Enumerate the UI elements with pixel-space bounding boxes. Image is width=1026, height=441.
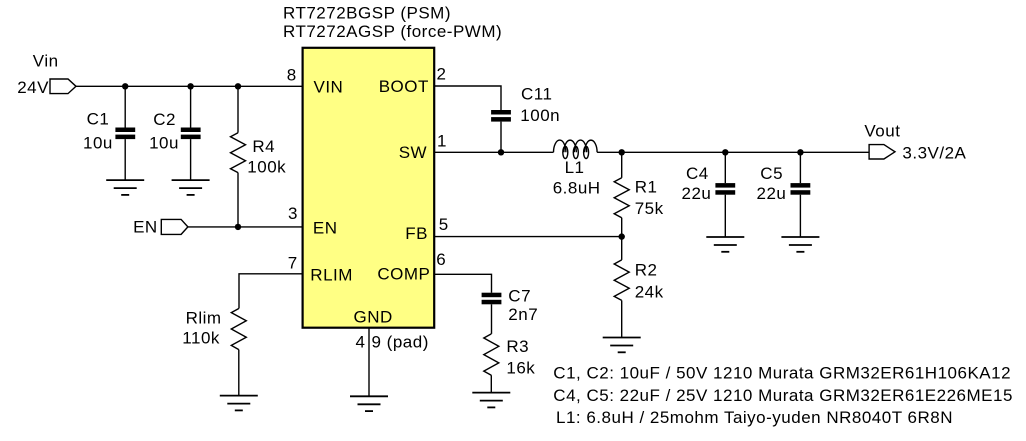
- capacitor C5: [791, 152, 811, 237]
- ground (C5): [781, 237, 819, 252]
- capacitor C11: [491, 110, 511, 152]
- svg-text:2n7: 2n7: [508, 305, 538, 324]
- svg-text:100k: 100k: [247, 158, 286, 177]
- svg-text:6: 6: [436, 250, 446, 269]
- junction SW/C11: [498, 149, 504, 155]
- svg-text:3.3V/2A: 3.3V/2A: [902, 144, 966, 163]
- ground (C4): [706, 237, 744, 252]
- svg-text:C1, C2: 10uF / 50V 1210 Murata: C1, C2: 10uF / 50V 1210 Murata GRM32ER61…: [553, 364, 1011, 383]
- wire L1 to Vout: [597, 151, 869, 153]
- svg-text:L1: 6.8uH / 25mohm Taiyo-yuden: L1: 6.8uH / 25mohm Taiyo-yuden NR8040T 6…: [556, 408, 953, 427]
- svg-text:22u: 22u: [757, 184, 787, 203]
- svg-text:8: 8: [287, 66, 297, 85]
- ground (Rlim): [220, 396, 258, 411]
- svg-text:R1: R1: [635, 178, 658, 197]
- svg-text:RT7272AGSP (force-PWM): RT7272AGSP (force-PWM): [283, 22, 502, 41]
- wire GND pin: [368, 328, 370, 397]
- svg-text:3: 3: [288, 204, 298, 223]
- svg-text:24V: 24V: [17, 78, 49, 97]
- svg-text:Rlim: Rlim: [186, 309, 222, 328]
- wire RLIM to Rlim resistor: [239, 274, 303, 309]
- svg-text:2: 2: [437, 65, 447, 84]
- junction SW/L1/R1: [619, 149, 625, 155]
- svg-text:EN: EN: [133, 217, 158, 236]
- resistor R3: [484, 334, 499, 393]
- svg-text:R4: R4: [252, 137, 275, 156]
- resistor R2: [614, 237, 629, 338]
- ground (C2): [172, 180, 210, 195]
- svg-text:9 (pad): 9 (pad): [372, 333, 429, 352]
- ground (C1): [106, 180, 144, 195]
- svg-text:RT7272BGSP (PSM): RT7272BGSP (PSM): [283, 4, 451, 23]
- svg-text:C1: C1: [87, 109, 110, 128]
- svg-text:C11: C11: [521, 85, 552, 104]
- capacitor C7: [482, 293, 502, 334]
- input terminal EN: [161, 219, 188, 234]
- wire FB: [434, 236, 622, 238]
- capacitor C2: [181, 86, 201, 180]
- svg-text:7: 7: [288, 254, 298, 273]
- svg-text:75k: 75k: [635, 199, 664, 218]
- svg-text:16k: 16k: [506, 359, 535, 378]
- resistor R1: [614, 152, 629, 236]
- junction EN/R4: [235, 224, 241, 230]
- svg-text:100n: 100n: [520, 106, 560, 125]
- svg-text:4: 4: [356, 333, 366, 352]
- output terminal Vout: [869, 145, 895, 159]
- ground (R2): [603, 338, 641, 353]
- svg-text:BOOT: BOOT: [379, 77, 429, 96]
- svg-text:1: 1: [437, 131, 447, 150]
- junction SW/C5: [797, 149, 803, 155]
- junction Vin/C1: [122, 83, 128, 89]
- svg-text:VIN: VIN: [314, 77, 344, 96]
- svg-text:5: 5: [439, 215, 449, 234]
- IC U1 RT7272 body: [303, 48, 435, 328]
- svg-text:FB: FB: [405, 224, 428, 243]
- svg-text:24k: 24k: [635, 283, 664, 302]
- svg-text:Vin: Vin: [33, 52, 59, 71]
- wire COMP to C7: [434, 274, 491, 292]
- inductor L1: [554, 140, 598, 158]
- wire Vin rail: [76, 85, 303, 87]
- svg-text:22u: 22u: [682, 184, 712, 203]
- svg-text:SW: SW: [399, 143, 427, 162]
- svg-text:C4: C4: [686, 164, 709, 183]
- resistor R4: [231, 86, 246, 227]
- svg-text:GND: GND: [354, 308, 393, 327]
- junction FB/R1/R2: [619, 233, 625, 239]
- junction SW/C4: [722, 149, 728, 155]
- svg-text:C5: C5: [760, 164, 783, 183]
- svg-text:C4, C5: 22uF / 25V 1210 Murata: C4, C5: 22uF / 25V 1210 Murata GRM32ER61…: [553, 386, 1013, 405]
- ground (R3): [472, 393, 510, 408]
- ground (GND pin): [350, 396, 388, 411]
- svg-text:Vout: Vout: [864, 122, 900, 141]
- svg-text:L1: L1: [565, 158, 585, 177]
- wire BOOT to C11: [434, 86, 501, 110]
- wire EN: [188, 226, 303, 228]
- capacitor C1: [115, 86, 135, 180]
- junction Vin/C2: [187, 83, 193, 89]
- capacitor C4: [715, 152, 735, 237]
- resistor Rlim: [231, 309, 246, 396]
- svg-text:C2: C2: [153, 110, 176, 129]
- svg-text:110k: 110k: [182, 328, 220, 347]
- input terminal Vin: [50, 79, 76, 94]
- svg-text:EN: EN: [313, 219, 338, 238]
- svg-text:10u: 10u: [149, 134, 179, 153]
- svg-text:RLIM: RLIM: [310, 266, 353, 285]
- svg-text:C7: C7: [508, 287, 531, 306]
- svg-text:10u: 10u: [83, 134, 113, 153]
- svg-text:R3: R3: [506, 337, 529, 356]
- wire SW to L1: [434, 151, 553, 153]
- svg-text:6.8uH: 6.8uH: [553, 179, 601, 198]
- svg-text:COMP: COMP: [377, 265, 430, 284]
- svg-text:R2: R2: [635, 260, 658, 279]
- junction Vin/R4: [235, 83, 241, 89]
